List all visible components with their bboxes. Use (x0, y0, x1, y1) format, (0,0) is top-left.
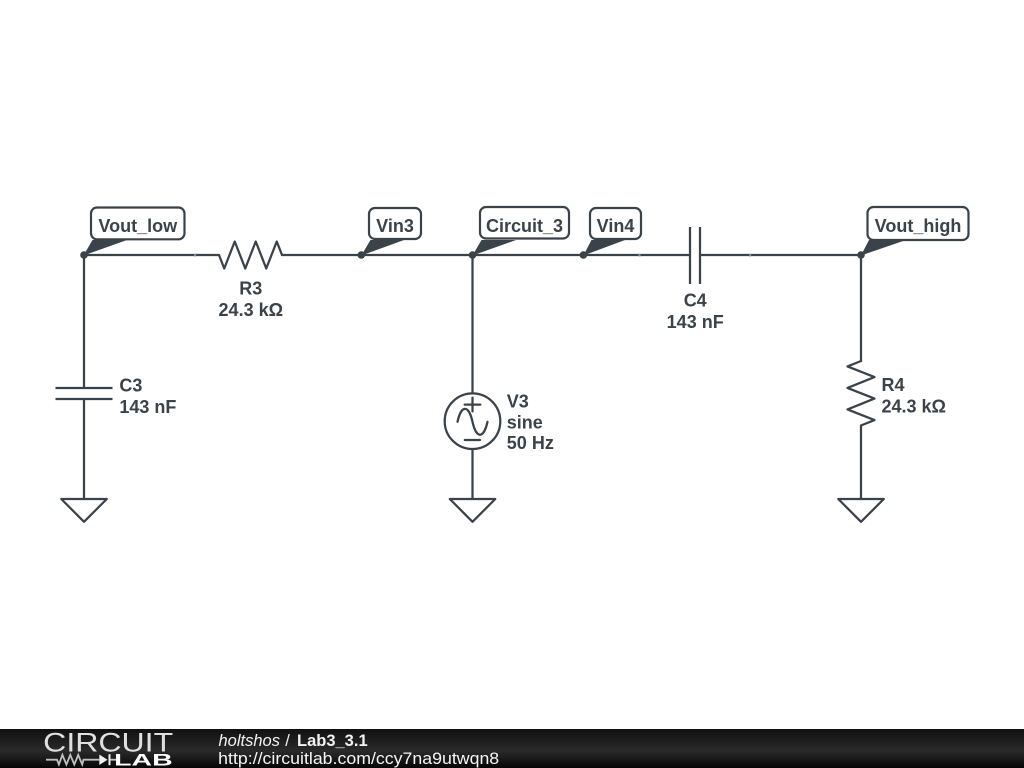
svg-text:Vin3: Vin3 (376, 216, 414, 236)
capacitor C3 (56, 388, 113, 399)
value label R3 (219, 278, 283, 320)
source V3 (445, 393, 501, 449)
wire middle branch lower (471, 449, 473, 499)
value label C4 (667, 290, 724, 332)
wire right branch upper (860, 255, 862, 361)
ground right (838, 499, 884, 522)
node Vin4 dot (580, 251, 588, 259)
wire joint tick mid (638, 254, 640, 257)
label Circuit_3 (473, 207, 570, 256)
wire joint tick right (749, 254, 751, 257)
wire right branch lower (860, 426, 862, 500)
wire middle branch upper (471, 255, 473, 394)
wire joint tick left (194, 254, 196, 257)
node Vout_high dot (857, 251, 865, 259)
bottom bar (0, 729, 1024, 768)
svg-text:Vin4: Vin4 (597, 216, 635, 236)
value label V3 (507, 392, 554, 454)
wire left branch lower (83, 399, 85, 499)
svg-text:http://circuitlab.com/ccy7na9u: http://circuitlab.com/ccy7na9utwqn8 (218, 750, 499, 768)
logo squiggle resistor (46, 755, 99, 765)
svg-text:C4: C4 (684, 290, 707, 310)
logo diode (99, 755, 107, 766)
svg-text:143 nF: 143 nF (119, 397, 176, 417)
svg-text:sine: sine (507, 413, 543, 433)
svg-text:143 nF: 143 nF (667, 312, 724, 332)
ground left (61, 499, 107, 522)
svg-text:R4: R4 (882, 375, 905, 395)
resistor R3 (219, 242, 282, 269)
value label R4 (882, 375, 946, 417)
label Vin4 (583, 208, 641, 256)
svg-text:Circuit_3: Circuit_3 (486, 216, 563, 236)
wire top-middle (282, 254, 690, 256)
svg-text:50 Hz: 50 Hz (507, 433, 554, 453)
node Vin3 dot (358, 251, 366, 259)
svg-text:Vout_high: Vout_high (875, 216, 962, 236)
node Circuit_3 dot (469, 251, 477, 259)
wire top-right (700, 254, 861, 256)
svg-text:24.3 kΩ: 24.3 kΩ (882, 397, 946, 417)
wire left branch upper (83, 255, 85, 388)
svg-text:holtshos: holtshos (219, 732, 280, 750)
value label C3 (119, 376, 176, 417)
svg-text:Vout_low: Vout_low (98, 216, 178, 236)
title holtshos / Lab3_3.1 (219, 732, 368, 750)
svg-text:24.3 kΩ: 24.3 kΩ (219, 300, 283, 320)
node Vout_low dot (80, 251, 88, 259)
svg-text:C3: C3 (119, 376, 142, 396)
svg-text:V3: V3 (507, 392, 529, 412)
resistor R4 (848, 361, 875, 426)
svg-text:R3: R3 (239, 278, 262, 298)
label Vout_high (861, 207, 969, 256)
capacitor C4 (690, 227, 700, 284)
wire top-left (84, 254, 219, 256)
svg-text:Lab3_3.1: Lab3_3.1 (297, 732, 368, 750)
svg-text:LAB: LAB (114, 751, 173, 768)
label Vin3 (361, 208, 421, 256)
svg-text:/: / (285, 732, 290, 750)
label Vout_low (84, 208, 185, 256)
ground middle (450, 499, 496, 522)
